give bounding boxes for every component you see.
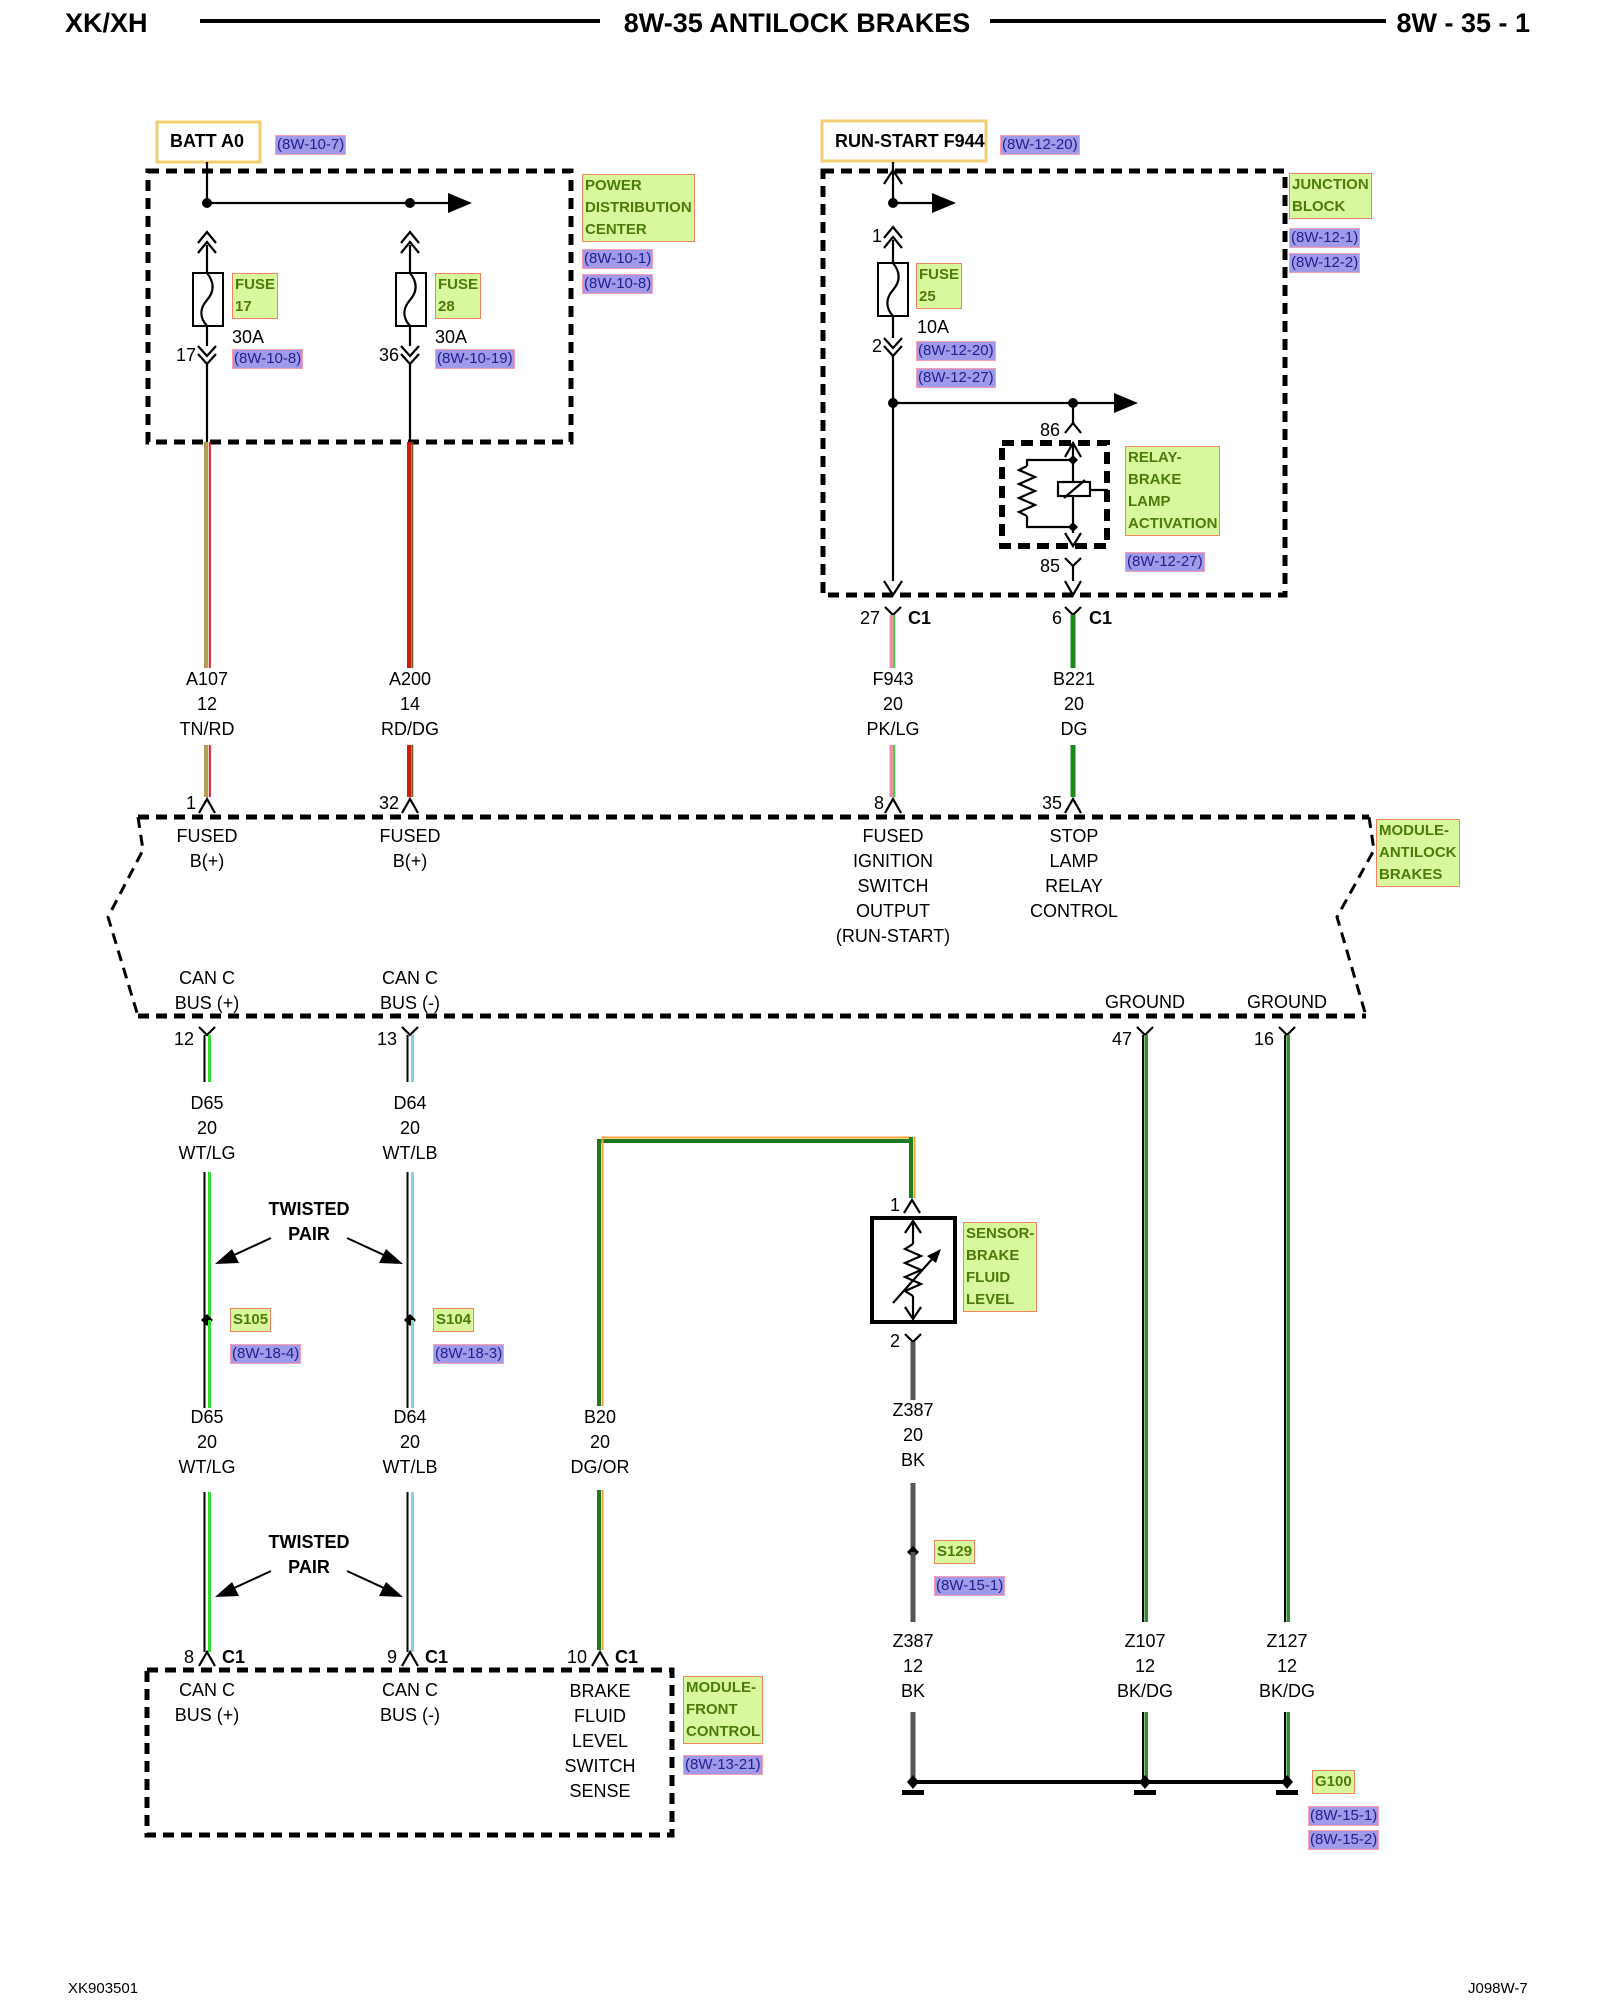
label G100 — [1312, 1770, 1355, 1794]
node ground Z387 — [907, 1775, 919, 1789]
ref 8W-18-4 — [230, 1344, 301, 1364]
wire relay coil top — [1072, 460, 1074, 482]
ref 8W-18-3 — [433, 1344, 504, 1364]
battery feed box BATT A0 — [157, 122, 260, 162]
arrow exit relay box — [1065, 533, 1081, 546]
wire Z107 12 BK/DG upper — [1143, 1035, 1146, 1622]
wire A107 12 TN/RD upper — [206, 442, 210, 668]
splice label S105 — [230, 1308, 271, 1332]
module antilock brakes outline top — [138, 815, 1369, 820]
wire PDC bus — [207, 202, 448, 204]
wire fuse 17 to PDC edge — [206, 364, 208, 442]
label BATT A0 — [170, 131, 244, 152]
pin 16 — [1254, 1029, 1274, 1050]
value 30A fuse 28 — [435, 327, 467, 348]
label POWER DISTRIBUTION CENTER — [582, 174, 695, 242]
module antilock brakes outline right — [1337, 817, 1374, 1016]
splice S105 — [201, 1314, 213, 1326]
pin 32 module ABS — [379, 793, 399, 814]
ref 8W-12-20 fuse — [916, 341, 996, 361]
node junction JB lower left — [888, 398, 898, 408]
wire Z387 20 BK segment 2 — [911, 1483, 916, 1552]
node junction right PDC — [405, 198, 415, 208]
arrow exit JB top — [884, 170, 902, 184]
wire B20 20 DG/OR riser — [599, 1137, 915, 1650]
ref 8W-15-2 G100 — [1308, 1830, 1379, 1850]
pin 2 fuse 25 — [872, 336, 882, 357]
ref 8W-12-27 relay — [1125, 552, 1205, 572]
ref 8W-10-8 fuse 17 — [232, 349, 303, 369]
splice S104 — [404, 1314, 416, 1326]
arrow enter sensor box — [905, 1221, 921, 1244]
wire JB lower bus — [893, 402, 1114, 404]
node ground Z107 — [1139, 1775, 1151, 1789]
arrow JB upper bus continuation — [932, 193, 956, 213]
pin 8 module ABS — [874, 793, 884, 814]
connector pin 10 C1 front control — [592, 1652, 608, 1666]
wire A200 14 RD/DG lower — [409, 745, 412, 797]
wire F943 20 PK/LG upper — [892, 615, 895, 668]
wire A200 14 RD/DG upper — [409, 442, 412, 668]
ref 8W-15-1 G100 — [1308, 1806, 1379, 1826]
wire label A200 14 RD/DG — [381, 667, 439, 742]
wire label A107 12 TN/RD — [180, 667, 235, 742]
connector pin 86 — [1065, 423, 1081, 433]
pin 9 C1 — [387, 1647, 397, 1668]
pin 6 — [1052, 608, 1062, 629]
label FUSED B(+) left — [176, 824, 237, 874]
wire B221 20 DG upper — [1071, 615, 1076, 668]
connector pin 32 module ABS — [402, 799, 418, 813]
footer code XK903501 — [68, 1980, 138, 1997]
module antilock brakes outline bottom — [138, 1014, 1366, 1019]
wire D64 20 WT/LB segment 4 — [408, 1492, 413, 1652]
node junction JB lower right — [1068, 398, 1078, 408]
connector pin 47 module ABS — [1137, 1027, 1153, 1035]
connector name C1 pin 27 — [908, 608, 931, 629]
wire RUN-START to JB — [892, 162, 894, 203]
node junction left PDC — [202, 198, 212, 208]
run-start feed box RUN-START F944 — [822, 121, 986, 161]
label BRAKE FLUID LEVEL SWITCH SENSE — [565, 1679, 636, 1804]
value 30A fuse 17 — [232, 327, 264, 348]
label STOP LAMP RELAY CONTROL — [1030, 824, 1118, 924]
label FUSE 28 — [435, 273, 481, 319]
pin 1 module ABS — [186, 793, 196, 814]
pin 36 — [379, 345, 399, 366]
wire Z387 12 BK segment 4 — [911, 1712, 916, 1782]
pin 8 C1 — [184, 1647, 194, 1668]
wire D65 20 WT/LG segment 1 — [205, 1035, 210, 1082]
ground symbol G100 right — [1276, 1790, 1298, 1795]
connector pin 16 module ABS — [1279, 1027, 1295, 1035]
wire Z387 12 BK segment 3 — [911, 1552, 916, 1622]
label FUSE 25 — [916, 263, 962, 309]
label MODULE-FRONT CONTROL — [683, 1676, 763, 1744]
header rule right — [990, 19, 1386, 23]
resistor variable sensor element — [905, 1244, 921, 1296]
wire label D65 20 WT/LG upper — [179, 1091, 236, 1166]
pin 1 sensor — [890, 1195, 900, 1216]
pin 12 — [174, 1029, 194, 1050]
arrow enter relay box — [1065, 443, 1081, 460]
wire label Z107 12 BK/DG — [1117, 1629, 1173, 1704]
sensor brake fluid level box — [872, 1218, 955, 1322]
splice S129 — [907, 1546, 919, 1558]
ref 8W-10-8 — [582, 274, 653, 294]
label CAN C BUS plus module ABS — [175, 966, 240, 1016]
wire relay coil bottom — [1072, 496, 1074, 533]
header title 8W-35 ANTILOCK BRAKES — [624, 8, 970, 39]
header label XK/XH — [65, 8, 148, 39]
wire label D64 20 WT/LB upper — [382, 1091, 437, 1166]
connector pin 85 — [1065, 558, 1081, 581]
ref 8W-12-20 top — [1000, 135, 1080, 155]
label SENSOR-BRAKE FLUID LEVEL — [963, 1222, 1037, 1312]
ref 8W-12-27 fuse — [916, 368, 996, 388]
wire B20 gap for labels — [590, 1406, 610, 1490]
twisted pair callout arrows upper — [215, 1238, 403, 1264]
power distribution center box — [148, 171, 571, 442]
node relay bottom — [1068, 522, 1078, 532]
splice label S104 — [433, 1308, 474, 1332]
arrow exit JB bottom right — [1065, 581, 1081, 595]
pin 10 C1 — [567, 1647, 587, 1668]
connector pin 6 C1 — [1065, 607, 1081, 615]
arrow exit JB bottom left — [884, 581, 902, 595]
connector chevrons above fuse 25, pin 1 — [884, 227, 902, 263]
connector pin 13 module ABS — [402, 1027, 418, 1035]
node ground Z127 — [1281, 1775, 1293, 1789]
wire A107 12 TN/RD lower — [206, 745, 210, 797]
label CAN C BUS minus module ABS — [380, 966, 440, 1016]
wire label F943 20 PK/LG — [866, 667, 919, 742]
pin 1 fuse 25 — [872, 226, 882, 247]
wire relay resistor bottom lead — [1027, 516, 1073, 527]
wire JB to pin 27 exit — [892, 403, 894, 581]
label RUN-START F944 — [835, 131, 985, 152]
connector chevrons below fuse 28, pin 36 — [401, 326, 419, 364]
ref 8W-15-1 splice — [934, 1576, 1005, 1596]
connector pin 2 sensor — [905, 1334, 921, 1342]
fuse F28 — [396, 273, 426, 326]
module antilock brakes outline left — [108, 817, 143, 1016]
label RELAY-BRAKE LAMP ACTIVATION — [1125, 446, 1220, 536]
connector name C1 pin 8 — [222, 1647, 245, 1668]
arrow PDC bus continuation — [448, 193, 472, 213]
connector chevrons above fuse 28 — [401, 232, 419, 273]
wire label D64 20 WT/LB lower — [382, 1405, 437, 1480]
wire B221 20 DG lower — [1071, 745, 1076, 797]
label TWISTED PAIR lower — [269, 1530, 350, 1580]
connector pin 27 C1 — [885, 607, 901, 615]
connector pin 8 C1 front control — [199, 1652, 215, 1666]
node relay top — [1068, 455, 1078, 465]
wire BATT A0 to PDC — [206, 162, 208, 204]
twisted pair callout arrows lower — [215, 1571, 403, 1597]
connector pin 35 module ABS — [1065, 799, 1081, 813]
label FUSE 17 — [232, 273, 278, 319]
wire fuse 25 to lower junction — [892, 356, 894, 403]
pin 2 sensor — [890, 1331, 900, 1352]
wire ground bus G100 — [913, 1780, 1287, 1784]
pin 17 — [176, 345, 196, 366]
label CAN C BUS minus front control — [380, 1678, 440, 1728]
wire D65 20 WT/LG segment 4 — [205, 1492, 210, 1652]
label CAN C BUS plus front control — [175, 1678, 240, 1728]
wire label B20 20 DG/OR — [570, 1405, 629, 1480]
pin 85 — [1040, 556, 1060, 577]
relay brake lamp activation box — [1002, 443, 1107, 546]
wire junction to relay pin 86 — [1072, 403, 1074, 423]
connector pin 1 sensor — [904, 1200, 920, 1213]
node junction JB upper — [888, 198, 898, 208]
wire label D65 20 WT/LG lower — [179, 1405, 236, 1480]
ground symbol G100 left — [902, 1790, 924, 1795]
wire fuse 28 to PDC edge — [409, 364, 411, 442]
footer code J098W-7 — [1468, 1980, 1528, 1997]
relay coil — [1058, 480, 1108, 498]
wire D65 20 WT/LG segment 3 — [205, 1320, 210, 1408]
wire D64 20 WT/LB segment 3 — [408, 1320, 413, 1408]
pin 86 — [1040, 420, 1060, 441]
arrow variable resistor — [893, 1249, 941, 1303]
wire D65 20 WT/LG segment 2 — [205, 1172, 210, 1320]
junction block box — [823, 171, 1285, 595]
connector pin 1 module ABS — [199, 799, 215, 813]
wire label B221 20 DG — [1053, 667, 1095, 742]
pin 47 — [1112, 1029, 1132, 1050]
wire D64 20 WT/LB segment 2 — [408, 1172, 413, 1320]
pin 27 — [860, 608, 880, 629]
wire label Z127 12 BK/DG — [1259, 1629, 1315, 1704]
connector chevrons below fuse 25, pin 2 — [884, 316, 902, 356]
arrow exit sensor box — [905, 1296, 921, 1319]
ground symbol G100 middle — [1134, 1790, 1156, 1795]
ref 8W-12-1 — [1289, 228, 1360, 248]
pin 35 module ABS — [1042, 793, 1062, 814]
label GROUND 16 — [1247, 990, 1327, 1015]
wire F943 20 PK/LG lower — [892, 745, 895, 797]
label TWISTED PAIR upper — [269, 1197, 350, 1247]
connector name C1 pin 10 — [615, 1647, 638, 1668]
ref 8W-13-21 — [683, 1755, 763, 1775]
connector name C1 pin 9 — [425, 1647, 448, 1668]
wire JB upper bus — [893, 202, 932, 204]
wire Z127 12 BK/DG upper — [1285, 1035, 1288, 1622]
pin 13 — [377, 1029, 397, 1050]
connector pin 9 C1 front control — [402, 1652, 418, 1666]
ref 8W-12-2 — [1289, 253, 1360, 273]
splice label S129 — [934, 1540, 975, 1564]
connector chevrons above fuse 17 — [198, 232, 216, 273]
wire label Z387 12 BK — [892, 1629, 933, 1704]
header page number 8W - 35 - 1 — [1396, 8, 1530, 39]
module front control box — [147, 1670, 672, 1835]
connector chevrons below fuse 17, pin 17 — [198, 326, 216, 364]
fuse F25 — [878, 263, 908, 316]
wire D64 20 WT/LB segment 1 — [408, 1035, 413, 1082]
fuse F17 — [193, 273, 223, 326]
label FUSED IGNITION SWITCH OUTPUT RUN-START — [836, 824, 950, 949]
label JUNCTION BLOCK — [1289, 173, 1372, 219]
wire relay resistor top lead — [1027, 460, 1073, 466]
label FUSED B(+) right — [379, 824, 440, 874]
arrow JB lower bus continuation — [1114, 393, 1138, 413]
connector pin 8 module ABS — [885, 799, 901, 813]
connector name C1 pin 6 — [1089, 608, 1112, 629]
value 10A fuse 25 — [917, 317, 949, 338]
ref 8W-10-19 — [435, 349, 515, 369]
ref 8W-10-7 — [275, 135, 346, 155]
label MODULE-ANTILOCK BRAKES — [1376, 819, 1460, 887]
label GROUND 47 — [1105, 990, 1185, 1015]
connector pin 12 module ABS — [199, 1027, 215, 1035]
wire Z127 12 BK/DG lower — [1285, 1712, 1288, 1782]
ref 8W-10-1 — [582, 249, 653, 269]
wire Z107 12 BK/DG lower — [1143, 1712, 1146, 1782]
wire label Z387 20 BK — [892, 1398, 933, 1473]
wire Z387 20 BK segment 1 — [911, 1342, 916, 1400]
resistor relay coil suppression — [1019, 466, 1035, 516]
header rule left — [200, 19, 600, 23]
